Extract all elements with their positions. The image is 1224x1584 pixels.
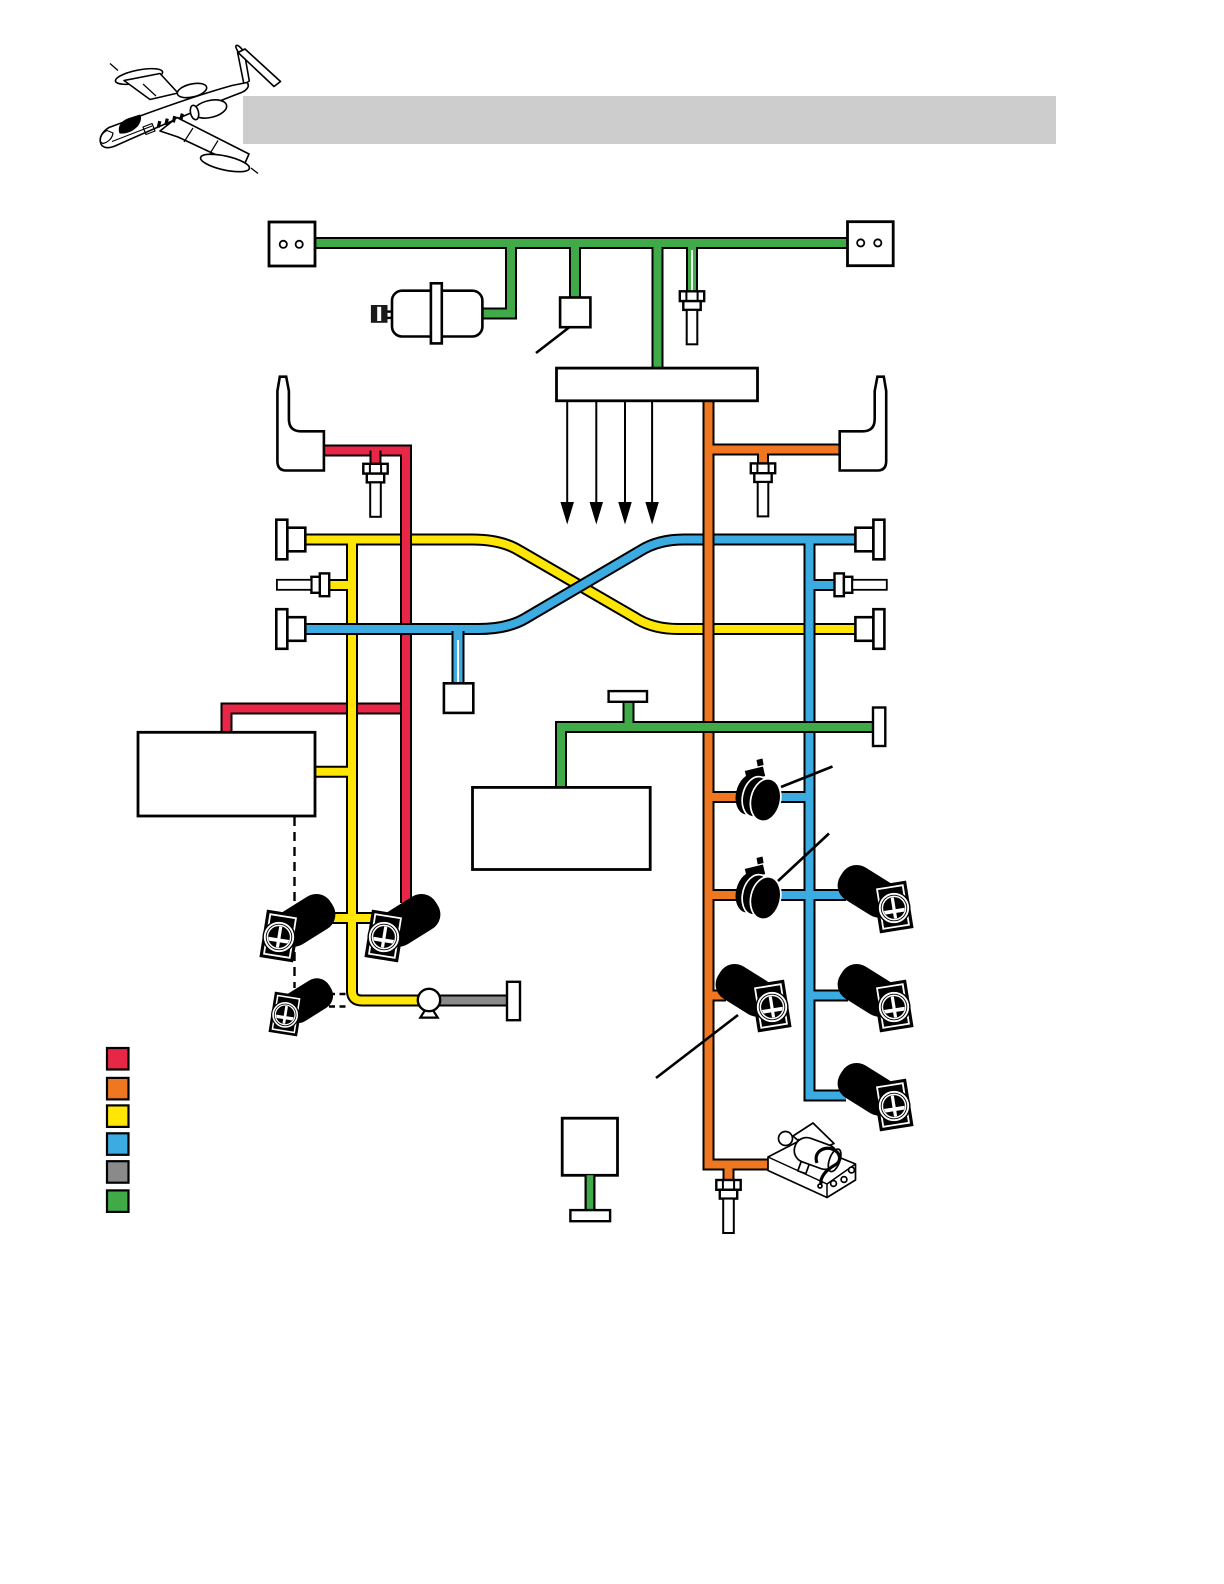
wire blue thin drop to static box (452, 631, 465, 684)
wire orange main vertical (709, 399, 771, 1165)
wire green regulator line fill (561, 727, 873, 789)
wire blue S-curve fill (305, 540, 856, 630)
wire gray vent line (438, 995, 509, 1007)
wire blue stub to probe (810, 579, 837, 591)
far wing (124, 74, 178, 100)
hose loop (816, 1148, 839, 1184)
gyro R1 (831, 859, 913, 934)
wire orange boot branch fill (709, 446, 841, 454)
wire green handle stem fill (625, 702, 633, 727)
bottom test box (562, 1118, 617, 1175)
wire blue stub gyro R2 (810, 990, 849, 1002)
probe connector right middle (835, 573, 887, 596)
dome (779, 1132, 793, 1146)
red bleed fitting (363, 464, 387, 517)
wire orange branch to right boot (709, 444, 841, 456)
wire green drop to relief fitting (686, 243, 698, 292)
shutoff valve (418, 989, 440, 1018)
green T handle (609, 691, 647, 702)
near wing (160, 118, 249, 168)
engine box left (269, 222, 315, 266)
tail fin (238, 50, 250, 85)
wire green regulator line (561, 727, 873, 789)
dashed stub upper at standby gyro (329, 993, 350, 995)
connector left bottom (276, 609, 305, 649)
legend orange (107, 1078, 129, 1100)
test base plate (570, 1210, 610, 1221)
supply manifold (557, 368, 758, 401)
wire green handle stem (623, 702, 635, 727)
wire yellow stub to probe connector (330, 579, 352, 591)
static source box (444, 683, 473, 713)
legend gray (107, 1161, 129, 1183)
wire orange stub regulator 1 (709, 791, 738, 803)
wire blue stub regulator 2 and gyro R1 (780, 889, 846, 901)
gyro R2 (831, 958, 913, 1033)
right boot (840, 377, 887, 471)
far engine nacelle (176, 81, 208, 100)
connector right bottom (855, 609, 884, 649)
gyro L2 (364, 888, 446, 963)
leader to pressure switch (536, 328, 569, 354)
legend green (107, 1190, 129, 1212)
wire green crossover fill (315, 239, 847, 247)
regulator 1 (731, 759, 785, 825)
bottom drain fitting (716, 1180, 740, 1233)
cabin windows (157, 113, 184, 127)
wire blue probe stub fill (810, 581, 837, 589)
left boot (277, 377, 324, 471)
wire green relief drop fill (688, 243, 696, 292)
wire orange regulator1 stub fill (709, 793, 738, 801)
tail bullet (234, 44, 246, 58)
wire yellow vertical fill (352, 536, 420, 1001)
wire green bottle drop fill (482, 243, 511, 314)
gyro L3 standby (269, 973, 339, 1037)
wire yellow box stub fill (315, 768, 352, 776)
left pressure box (138, 732, 315, 816)
wire green main drop to manifold (652, 243, 664, 370)
wire orange stub to fitting (757, 450, 769, 465)
leader to gyro 3 (656, 1015, 738, 1078)
gyro L1 (259, 888, 341, 963)
connector right top (855, 520, 884, 560)
green end plate (873, 708, 885, 747)
windshield (119, 115, 141, 134)
pump feet (787, 1134, 843, 1183)
gyro R3 (831, 1057, 913, 1132)
vent handle plate (507, 982, 520, 1020)
wire yellow main vertical (352, 536, 420, 1001)
pump cylinder (791, 1134, 841, 1173)
wire orange drain stub fill (725, 1165, 733, 1181)
relief fitting under green (680, 291, 704, 344)
wire orange stub regulator 2 (709, 889, 738, 901)
wire green switch drop fill (571, 243, 579, 299)
connector left top (276, 520, 305, 560)
wire yellow stub from left box (315, 766, 352, 778)
wire blue regulator1 stub fill (780, 793, 810, 801)
wire green drop to pressure switch (569, 243, 581, 299)
cabin door (143, 124, 155, 135)
wire blue vertical fill (810, 536, 847, 1096)
gusset plate (793, 1123, 834, 1153)
leader to regulator 2 (778, 834, 829, 882)
engine box right (848, 222, 894, 266)
white stem core of relief fitting (691, 250, 693, 291)
base plate (768, 1141, 856, 1198)
bolt holes (831, 1181, 837, 1187)
leader to regulator 1 (781, 767, 833, 788)
wire red: box to red main (227, 709, 408, 735)
legend swatches (107, 1048, 129, 1212)
wire blue gyro R2 stub fill (810, 992, 849, 1000)
orange bleed fitting (751, 463, 775, 516)
wire orange drop to bottom fitting (723, 1165, 735, 1181)
wire green engine crossover main (315, 237, 847, 249)
gray title banner (243, 96, 1056, 144)
wire blue regulator2 gyro stub fill (780, 891, 846, 899)
wire orange regulator2 stub fill (709, 891, 738, 899)
wire yellow stub to gyros (331, 912, 374, 924)
wire yellow gyro stub fill (331, 914, 374, 922)
wire yellow probe stub fill (330, 581, 352, 589)
wire green manifold drop fill (654, 243, 662, 370)
wire orange fitting stub fill (759, 450, 767, 465)
wire blue main vertical (810, 536, 847, 1096)
wire blue stub regulator 1 (780, 791, 810, 803)
wire orange gyro3 stub fill (709, 992, 727, 1000)
wire yellow top-left to lower-right S-curve (305, 540, 856, 630)
learjet aircraft art (100, 44, 280, 175)
near tip tank (199, 151, 251, 175)
air bottle (371, 283, 483, 343)
legend blue (107, 1133, 129, 1155)
wire blue lower-left to top-right S-curve (305, 540, 856, 630)
gyro 3 orange (709, 958, 791, 1033)
wire green test stem (585, 1175, 596, 1211)
nose ring (100, 131, 113, 144)
wire orange stub gyro 3 (709, 990, 727, 1002)
manifold arrows (562, 401, 658, 521)
wire yellow S-curve fill (305, 540, 856, 630)
far tip tank (114, 66, 164, 88)
wire orange vertical fill (709, 399, 771, 1165)
stabilizer (238, 49, 281, 87)
fuselage crease (112, 126, 152, 142)
vacuum pump assembly (768, 1123, 856, 1198)
near engine nacelle (192, 97, 229, 121)
pressure switch box (560, 298, 590, 328)
regulator 2 (731, 857, 785, 923)
wire red main vertical (322, 451, 406, 904)
legend yellow (107, 1105, 129, 1127)
legend red (107, 1048, 129, 1070)
fuselage (100, 83, 248, 148)
wire green drop to bottle (482, 243, 511, 314)
probe connector left middle (277, 573, 329, 596)
center regulator box (473, 787, 651, 869)
dashed stub lower at standby gyro (329, 1005, 350, 1007)
dashed line from left box to gyros (293, 817, 295, 988)
wire red stub to fitting (370, 451, 382, 465)
